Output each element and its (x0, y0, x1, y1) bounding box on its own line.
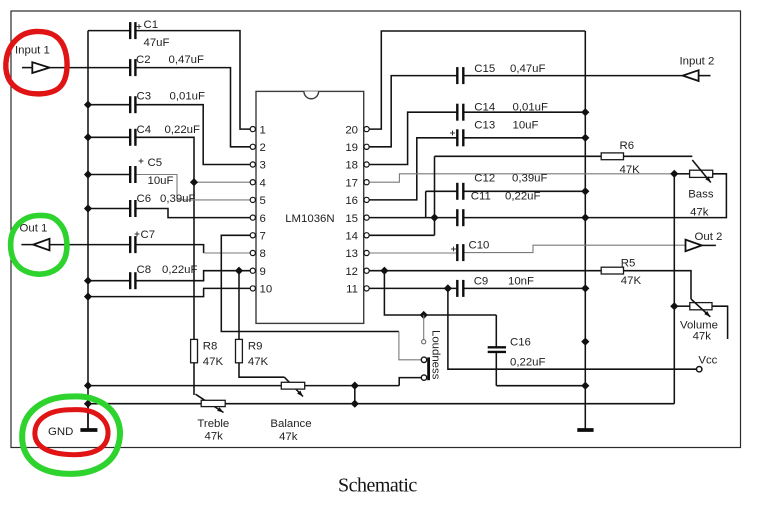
mystery junction on right bus (581, 337, 589, 345)
svg-text:19: 19 (345, 142, 358, 154)
svg-text:C2: C2 (136, 54, 151, 66)
svg-text:C3: C3 (137, 91, 152, 103)
potentiometer Bass 47k (688, 160, 714, 219)
wire pin 18 to C14 to right bus (369, 112, 457, 164)
svg-text:47K: 47K (248, 356, 269, 368)
svg-text:18: 18 (345, 160, 358, 172)
wire pin 13 to C10 to Out 2 (369, 252, 457, 254)
capacitor C2 (130, 54, 204, 76)
svg-text:C13: C13 (474, 120, 495, 132)
wire bus to C4, down to R8, branch pin 4 (88, 136, 130, 138)
svg-text:16: 16 (345, 195, 358, 207)
wire Volume left to bass branch (674, 305, 690, 307)
svg-text:47k: 47k (205, 431, 224, 443)
capacitor C6 (130, 193, 195, 217)
wire pin 17 to Bass pot (369, 174, 674, 182)
wire bus to C6 to pin 6 (88, 208, 130, 210)
svg-text:47K: 47K (620, 164, 641, 176)
junction bus-C3 (84, 101, 92, 109)
capacitor C9 (457, 276, 534, 297)
junction bus-pin10 (84, 292, 92, 300)
pin 1 (250, 124, 266, 136)
node Input 1 (15, 45, 50, 73)
junction line1-line2 (351, 381, 359, 389)
capacitor C15 (457, 63, 545, 84)
svg-text:C12: C12 (474, 173, 495, 185)
svg-text:C14: C14 (474, 102, 495, 114)
wire Input1 to C2 to pin 2 (50, 67, 131, 69)
pin 15 (345, 213, 369, 225)
svg-text:Treble: Treble (197, 418, 229, 430)
junction bus-line1 (84, 381, 92, 389)
svg-text:47K: 47K (203, 356, 224, 368)
svg-text:47k: 47k (279, 431, 298, 443)
svg-text:20: 20 (345, 124, 358, 136)
svg-text:LM1036N: LM1036N (285, 213, 334, 225)
svg-text:0,22uF: 0,22uF (505, 191, 541, 203)
svg-text:Out 2: Out 2 (695, 231, 723, 243)
pin 2 (250, 142, 266, 154)
svg-text:14: 14 (345, 231, 358, 243)
junction volume-left (670, 302, 678, 310)
svg-text:C6: C6 (137, 193, 152, 205)
resistor R6 (435, 140, 693, 176)
annotation green circle around Out 1 (11, 215, 67, 274)
op-amp U1 LM1036N (256, 91, 364, 323)
svg-text:13: 13 (345, 248, 358, 260)
capacitor C14 (457, 102, 548, 121)
wire pin 11 to C9 to bus (369, 287, 457, 289)
wire bass-volume vertical (673, 174, 675, 404)
pin 5 (250, 195, 266, 207)
svg-text:0,39uF: 0,39uF (512, 173, 548, 185)
svg-text:Balance: Balance (270, 418, 311, 430)
svg-text:6: 6 (260, 213, 266, 225)
svg-text:15: 15 (345, 213, 358, 225)
svg-text:4: 4 (260, 177, 266, 189)
pin 13 (345, 248, 369, 260)
resistor R9 (236, 339, 269, 368)
wire bus to C3 to pin 3 (88, 104, 130, 106)
wire bus to C8 to pin 9, down to R9 (88, 280, 130, 282)
wire pin 7 to loudness switch top (221, 235, 399, 331)
capacitor C10 (451, 240, 489, 262)
pin 19 (345, 142, 369, 154)
svg-text:R8: R8 (203, 340, 218, 352)
wire bus to C5 to pin 5 (88, 174, 130, 176)
wire C1 top rail to pin 1 (88, 30, 130, 32)
wire R9 to Balance wiper (239, 363, 284, 377)
pin 7 (250, 231, 266, 243)
svg-text:C1: C1 (144, 19, 159, 31)
wire Out1 to C7 to pin 8 (50, 244, 131, 246)
pin 14 (345, 231, 369, 243)
wire R6 to C12 line and pins 14/15 (434, 156, 436, 235)
wire pin 16 to C13 to right bus (369, 138, 457, 200)
svg-text:0,01uF: 0,01uF (513, 102, 549, 114)
svg-text:3: 3 (260, 160, 266, 172)
wire ground line 2 (88, 403, 674, 405)
svg-text:10nF: 10nF (508, 276, 534, 288)
junction C14-bus (581, 108, 589, 116)
pin 10 (250, 284, 272, 296)
junction C16-bus (581, 382, 589, 390)
pin 3 (250, 160, 266, 172)
wire Volume right stub (712, 306, 728, 339)
svg-text:10uF: 10uF (148, 175, 174, 187)
svg-text:0,01uF: 0,01uF (170, 91, 206, 103)
junction bus-C5 (84, 170, 92, 178)
svg-text:2: 2 (260, 142, 266, 154)
junction pin9-R9 (235, 267, 243, 275)
wire C16 bottom to right bus (496, 385, 585, 387)
pin 18 (345, 160, 369, 172)
svg-text:1: 1 (260, 124, 266, 136)
junction C9-bus (581, 284, 589, 292)
pin 12 (345, 266, 369, 278)
pin 17 (345, 177, 369, 189)
svg-text:C16: C16 (510, 337, 531, 349)
svg-text:7: 7 (260, 231, 266, 243)
svg-text:C5: C5 (148, 157, 163, 169)
svg-text:C11: C11 (471, 191, 491, 203)
svg-text:8: 8 (260, 248, 266, 260)
node Vcc (697, 355, 718, 372)
svg-text:0,22uF: 0,22uF (162, 264, 198, 276)
wire pin 14 (369, 234, 434, 236)
wire pin 10 to ground bus (88, 288, 250, 296)
junction pin11-Vcc branch (444, 284, 452, 292)
node Input 2 (680, 56, 715, 82)
wire ground line 1 (88, 385, 399, 387)
wire left ground bus (87, 31, 89, 430)
junction C4-pin4 (190, 178, 198, 186)
junction bus-C6 (84, 204, 92, 212)
svg-text:Schematic: Schematic (338, 475, 417, 497)
capacitor C4 (130, 124, 200, 146)
junction bus-C8 (84, 277, 92, 285)
svg-text:C10: C10 (469, 240, 490, 252)
wire Bass right to bus (585, 174, 726, 218)
svg-text:R5: R5 (621, 258, 636, 270)
svg-text:9: 9 (260, 266, 266, 278)
junction C11-bass-bus (581, 213, 589, 221)
pin 20 (345, 124, 369, 136)
capacitor C12 (457, 173, 547, 200)
pin 16 (345, 195, 369, 207)
capacitor C13 (450, 120, 538, 147)
node Out 1 (20, 223, 50, 251)
capacitor C16 (488, 315, 546, 386)
svg-text:11: 11 (346, 284, 358, 296)
node Out 2 (686, 231, 723, 251)
pin 4 (250, 177, 266, 189)
svg-text:47k: 47k (693, 331, 712, 343)
resistor R5 (601, 258, 641, 288)
svg-text:R6: R6 (620, 140, 635, 152)
junction bass-volume branch (670, 170, 678, 178)
svg-text:Input 2: Input 2 (680, 56, 715, 68)
switch Loudness (421, 330, 441, 380)
svg-text:Out 1: Out 1 (20, 223, 48, 235)
svg-text:47K: 47K (621, 275, 642, 287)
svg-text:C9: C9 (474, 276, 489, 288)
svg-text:10uF: 10uF (513, 120, 539, 132)
resistor R8 (191, 339, 224, 368)
svg-text:C7: C7 (141, 229, 156, 241)
pin 11 (346, 284, 369, 296)
junction bus-C4 (84, 133, 92, 141)
svg-text:R9: R9 (248, 340, 263, 352)
wire pin 15 to C11 to bus (369, 217, 457, 219)
wire R5 to Volume wiper (624, 271, 692, 299)
capacitor C8 (130, 264, 197, 289)
svg-text:10: 10 (260, 284, 273, 296)
svg-text:C15: C15 (474, 63, 495, 75)
svg-text:Vcc: Vcc (698, 355, 717, 367)
svg-text:Input 1: Input 1 (15, 45, 50, 57)
wire Vcc rail (448, 288, 697, 369)
svg-text:C8: C8 (137, 264, 152, 276)
svg-text:47k: 47k (690, 207, 709, 219)
wire right ground bus (584, 31, 586, 430)
capacitor C5 (130, 157, 173, 187)
pin 6 (250, 213, 266, 225)
potentiometer Balance 47k (270, 382, 311, 443)
annotation green circle around GND (22, 396, 120, 473)
svg-text:47uF: 47uF (144, 37, 170, 49)
svg-text:GND: GND (48, 426, 73, 438)
wire pin12 branch to loudness pole and C16 (384, 271, 496, 315)
capacitor C7 (130, 229, 155, 253)
pin 9 (250, 266, 266, 278)
svg-text:0,47uF: 0,47uF (169, 54, 205, 66)
potentiometer Treble 47k (197, 400, 229, 442)
wire pin 12 to R5 (369, 270, 601, 272)
junction loudness stub (420, 311, 428, 319)
capacitor C3 (130, 91, 205, 114)
loudness pole stub (423, 315, 425, 340)
ground symbol left GND (48, 404, 97, 438)
svg-text:0,22uF: 0,22uF (510, 357, 546, 369)
potentiometer Volume 47k (680, 299, 718, 343)
capacitor C11 (457, 191, 540, 227)
junction pin12 branch (380, 267, 388, 275)
svg-text:0,47uF: 0,47uF (510, 63, 546, 75)
svg-text:0,39uF: 0,39uF (160, 193, 196, 205)
svg-text:Loudness: Loudness (430, 330, 442, 380)
junction C12-bus (581, 187, 589, 195)
capacitor C1 (130, 19, 169, 49)
pin 8 (250, 248, 266, 260)
wire pin 19 to C15 to Input 2 (369, 76, 457, 147)
ground symbol right (577, 428, 593, 432)
annotation red circle around Input 1 (6, 31, 67, 93)
svg-text:Bass: Bass (688, 189, 714, 201)
wire R8 to Treble wiper (193, 363, 195, 395)
svg-text:0,22uF: 0,22uF (165, 124, 201, 136)
junction bus-line2 (84, 400, 92, 408)
svg-text:5: 5 (260, 195, 266, 207)
wire C12 to pin15 line (425, 191, 427, 217)
wire pin 20 top rail to right bus (369, 31, 585, 129)
junction C13-bus (581, 134, 589, 142)
svg-text:12: 12 (345, 266, 358, 278)
svg-text:C4: C4 (137, 124, 152, 136)
svg-text:17: 17 (345, 177, 358, 189)
annotation red circle around GND (35, 410, 108, 455)
junction R6-line-pin15 (430, 213, 438, 221)
